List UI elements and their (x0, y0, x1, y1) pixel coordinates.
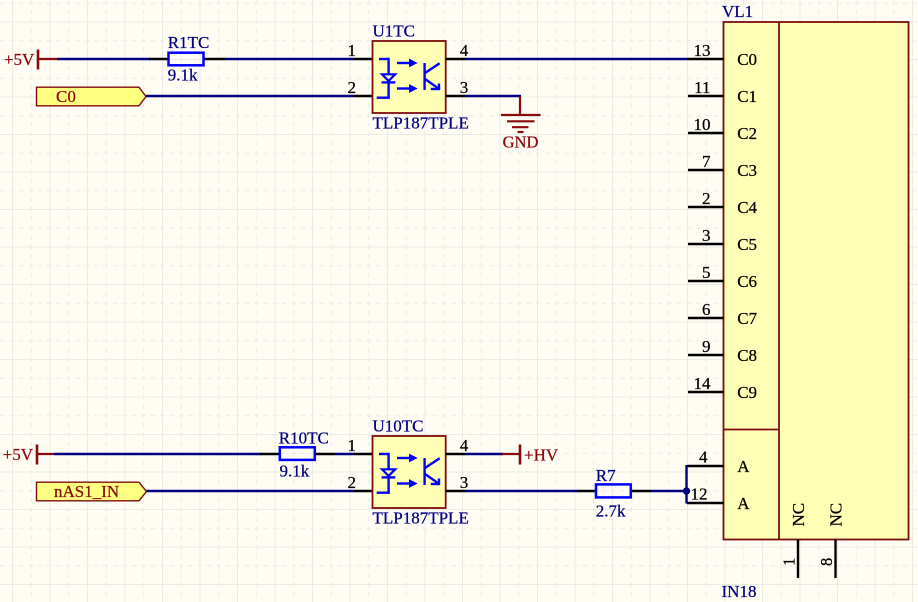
VL1 pin 3 C5 (688, 226, 757, 254)
svg-text:3: 3 (702, 226, 711, 245)
VL1 pin 6 C7 (688, 300, 758, 328)
svg-text:C6: C6 (737, 272, 757, 291)
svg-text:TLP187TPLE: TLP187TPLE (373, 508, 469, 527)
junction node A (683, 487, 690, 494)
wire R1TC to U1TC pin 1 (225, 58, 354, 60)
svg-text:1: 1 (348, 436, 357, 455)
svg-text:NC: NC (789, 503, 808, 527)
VL1 pin 10 C2 (688, 115, 757, 143)
power +5V (bottom) (3, 445, 54, 465)
svg-text:R10TC: R10TC (279, 429, 329, 448)
wire U1TC pin 3 to GND (466, 95, 522, 97)
svg-text:U10TC: U10TC (373, 417, 424, 436)
port nAS1_IN (37, 482, 147, 501)
wire U1TC pin 4 to VL1 pin 13 (466, 58, 689, 60)
U10TC pin 3 (446, 473, 469, 492)
svg-text:C0: C0 (737, 50, 757, 69)
wire node A vertical (685, 465, 687, 504)
svg-text:6: 6 (702, 300, 711, 319)
svg-text:C3: C3 (737, 161, 757, 180)
svg-text:C5: C5 (737, 235, 757, 254)
svg-text:A: A (737, 494, 750, 513)
svg-text:11: 11 (694, 78, 710, 97)
VL1 pin 4 A (687, 448, 750, 477)
svg-text:9.1k: 9.1k (280, 462, 310, 481)
svg-text:C2: C2 (737, 124, 757, 143)
VL1 pin 5 C6 (688, 263, 757, 291)
svg-text:2: 2 (702, 189, 711, 208)
VL1 pin 13 C0 (688, 41, 757, 69)
svg-text:13: 13 (694, 41, 711, 60)
svg-text:2: 2 (348, 473, 357, 492)
svg-text:4: 4 (699, 448, 708, 467)
resistor R10TC (260, 429, 335, 481)
svg-text:C9: C9 (737, 383, 757, 402)
VL1 pin 1 NC (780, 503, 809, 578)
svg-text:+HV: +HV (524, 446, 559, 465)
svg-text:1: 1 (348, 41, 357, 60)
svg-text:4: 4 (460, 41, 469, 60)
U1TC pin 3 (446, 78, 469, 97)
svg-text:nAS1_IN: nAS1_IN (54, 482, 119, 501)
svg-text:C7: C7 (737, 309, 757, 328)
VL1 pin 9 C8 (688, 337, 757, 365)
resistor R7 (578, 466, 652, 520)
op-amp U1TC body (373, 22, 469, 133)
svg-text:+5V: +5V (4, 50, 35, 69)
ground GND (501, 96, 541, 152)
power +5V (top) (4, 50, 57, 70)
svg-text:GND: GND (503, 133, 539, 152)
wire nAS1_IN to U10TC pin 2 (147, 490, 355, 492)
svg-text:NC: NC (827, 503, 846, 527)
U10TC pin 2 (348, 473, 373, 492)
wire U10TC pin 3 to R7 (466, 490, 579, 492)
svg-text:U1TC: U1TC (373, 22, 416, 41)
svg-text:C0: C0 (56, 87, 76, 106)
VL1 pin 7 C3 (688, 152, 757, 180)
svg-text:4: 4 (460, 436, 469, 455)
svg-text:A: A (737, 457, 750, 476)
svg-text:+5V: +5V (3, 445, 34, 464)
VL1 pin 11 C1 (688, 78, 757, 106)
wire U10TC pin 4 to +HV (466, 453, 504, 455)
U1TC pin 2 (348, 78, 373, 97)
U1TC pin 1 (348, 41, 373, 60)
port C0 (37, 87, 147, 106)
VL1 pin 12 A (687, 485, 750, 514)
svg-text:8: 8 (817, 558, 836, 566)
svg-text:12: 12 (691, 485, 708, 504)
wire +5V to R1TC (57, 58, 150, 60)
wire R7 to node A (651, 490, 687, 492)
U10TC pin 4 (446, 436, 469, 455)
resistor R1TC (149, 33, 225, 85)
svg-text:7: 7 (702, 152, 711, 171)
svg-text:3: 3 (460, 473, 469, 492)
U10TC pin 1 (348, 436, 373, 455)
svg-text:10: 10 (694, 115, 711, 134)
svg-text:2.7k: 2.7k (596, 501, 626, 520)
svg-text:C4: C4 (737, 198, 757, 217)
svg-text:R7: R7 (596, 466, 616, 485)
svg-text:VL1: VL1 (722, 2, 753, 21)
svg-text:3: 3 (460, 78, 469, 97)
wire +5V to R10TC (54, 453, 261, 455)
svg-text:2: 2 (348, 78, 357, 97)
svg-text:R1TC: R1TC (168, 33, 210, 52)
svg-text:C1: C1 (737, 87, 757, 106)
svg-text:IN18: IN18 (722, 582, 757, 601)
svg-text:C8: C8 (737, 346, 757, 365)
VL1 pin 8 NC (817, 503, 846, 578)
svg-text:TLP187TPLE: TLP187TPLE (373, 113, 469, 132)
svg-text:1: 1 (780, 558, 799, 566)
U1TC pin 4 (446, 41, 469, 60)
svg-text:9.1k: 9.1k (168, 65, 198, 84)
svg-text:14: 14 (694, 374, 712, 393)
op-amp U10TC body (373, 417, 469, 528)
svg-text:9: 9 (702, 337, 711, 356)
svg-text:5: 5 (702, 263, 711, 282)
VL1 pin 14 C9 (688, 374, 757, 402)
power +HV (502, 445, 559, 465)
VL1 pin 2 C4 (688, 189, 758, 217)
wire R10TC to U10TC pin 1 (335, 453, 354, 455)
IC VL1 body (722, 2, 909, 601)
wire C0 to U1TC pin 2 (146, 95, 354, 97)
